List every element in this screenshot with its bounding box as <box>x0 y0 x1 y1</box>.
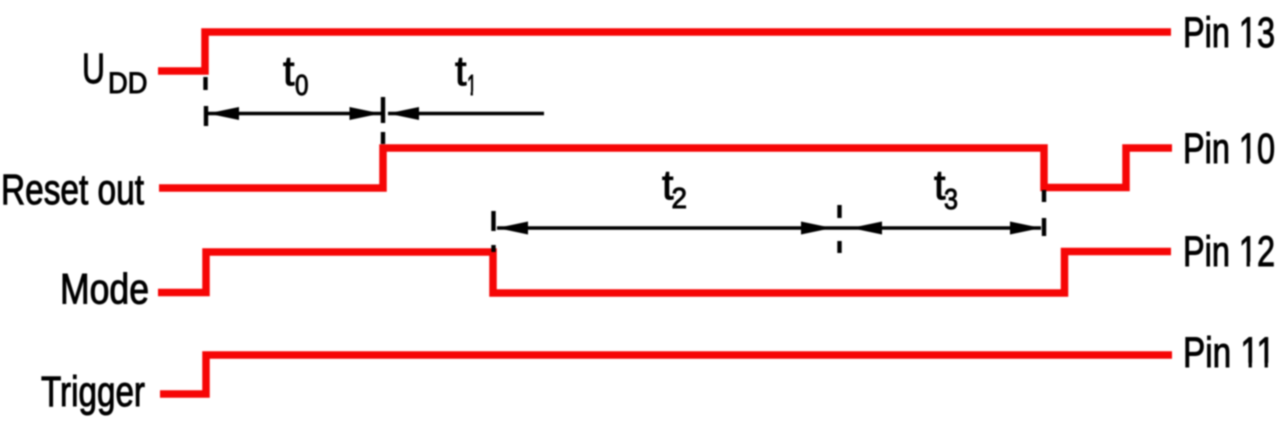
extension dash at Reset out falling edge <box>1042 190 1046 202</box>
node UDD signal label <box>82 45 148 100</box>
extension tick t3 right <box>1042 218 1046 236</box>
extension tick t0 left <box>204 106 208 126</box>
label t1 <box>455 47 478 102</box>
svg-text:2: 2 <box>672 183 688 215</box>
extension dash t2/t3 boundary upper <box>837 205 841 218</box>
extension dash at Mode falling edge <box>491 245 495 252</box>
svg-text:0: 0 <box>295 70 309 102</box>
label t3 <box>934 161 958 216</box>
svg-text:1: 1 <box>467 70 477 102</box>
arrowhead t3 right <box>1010 222 1041 235</box>
svg-text:DD: DD <box>108 67 148 100</box>
svg-text:Reset out: Reset out <box>1 166 144 214</box>
label t2 <box>662 161 687 215</box>
pin label Pin 12 <box>1183 228 1275 276</box>
extension dash at Reset out rising edge <box>381 132 385 144</box>
svg-text:U: U <box>82 45 105 93</box>
extension tick t0/t1 boundary <box>381 97 385 123</box>
arrowhead t0 right <box>350 107 381 120</box>
extension dash t2/t3 boundary lower <box>837 241 841 253</box>
svg-text:t: t <box>283 47 295 94</box>
pin label Pin 13 <box>1183 9 1275 57</box>
dimension line t2 t3 <box>497 226 1041 229</box>
svg-text:Pin 11: Pin 11 <box>1183 329 1275 377</box>
svg-text:t: t <box>455 47 467 94</box>
arrowhead t3 left <box>851 222 882 235</box>
extension tick t2 left <box>491 211 495 231</box>
wire Reset out trace (Pin 10 waveform) <box>159 148 1172 188</box>
arrowhead t2 right <box>801 222 832 235</box>
wire UDD trace (Pin 13 waveform) <box>158 32 1171 71</box>
wire Mode trace (Pin 12 waveform) <box>158 252 1171 294</box>
svg-text:Mode: Mode <box>60 266 149 314</box>
svg-text:Pin 10: Pin 10 <box>1183 125 1275 173</box>
wire Trigger trace (Pin 11 waveform) <box>160 355 1172 394</box>
arrowhead t2 left <box>497 222 528 235</box>
svg-text:Trigger: Trigger <box>41 368 145 416</box>
dimension line t1 <box>388 112 544 115</box>
label t0 <box>283 47 309 102</box>
dimension line t0 <box>208 112 381 115</box>
pin label Pin 11 <box>1183 329 1275 377</box>
arrowhead t1 left <box>388 107 419 120</box>
extension dash at UDD rising edge <box>203 77 207 90</box>
pin label Pin 10 <box>1183 125 1275 173</box>
arrowhead t0 left <box>208 107 239 120</box>
svg-text:Pin 12: Pin 12 <box>1183 228 1275 276</box>
svg-text:3: 3 <box>944 184 958 216</box>
svg-text:Pin 13: Pin 13 <box>1183 9 1275 57</box>
